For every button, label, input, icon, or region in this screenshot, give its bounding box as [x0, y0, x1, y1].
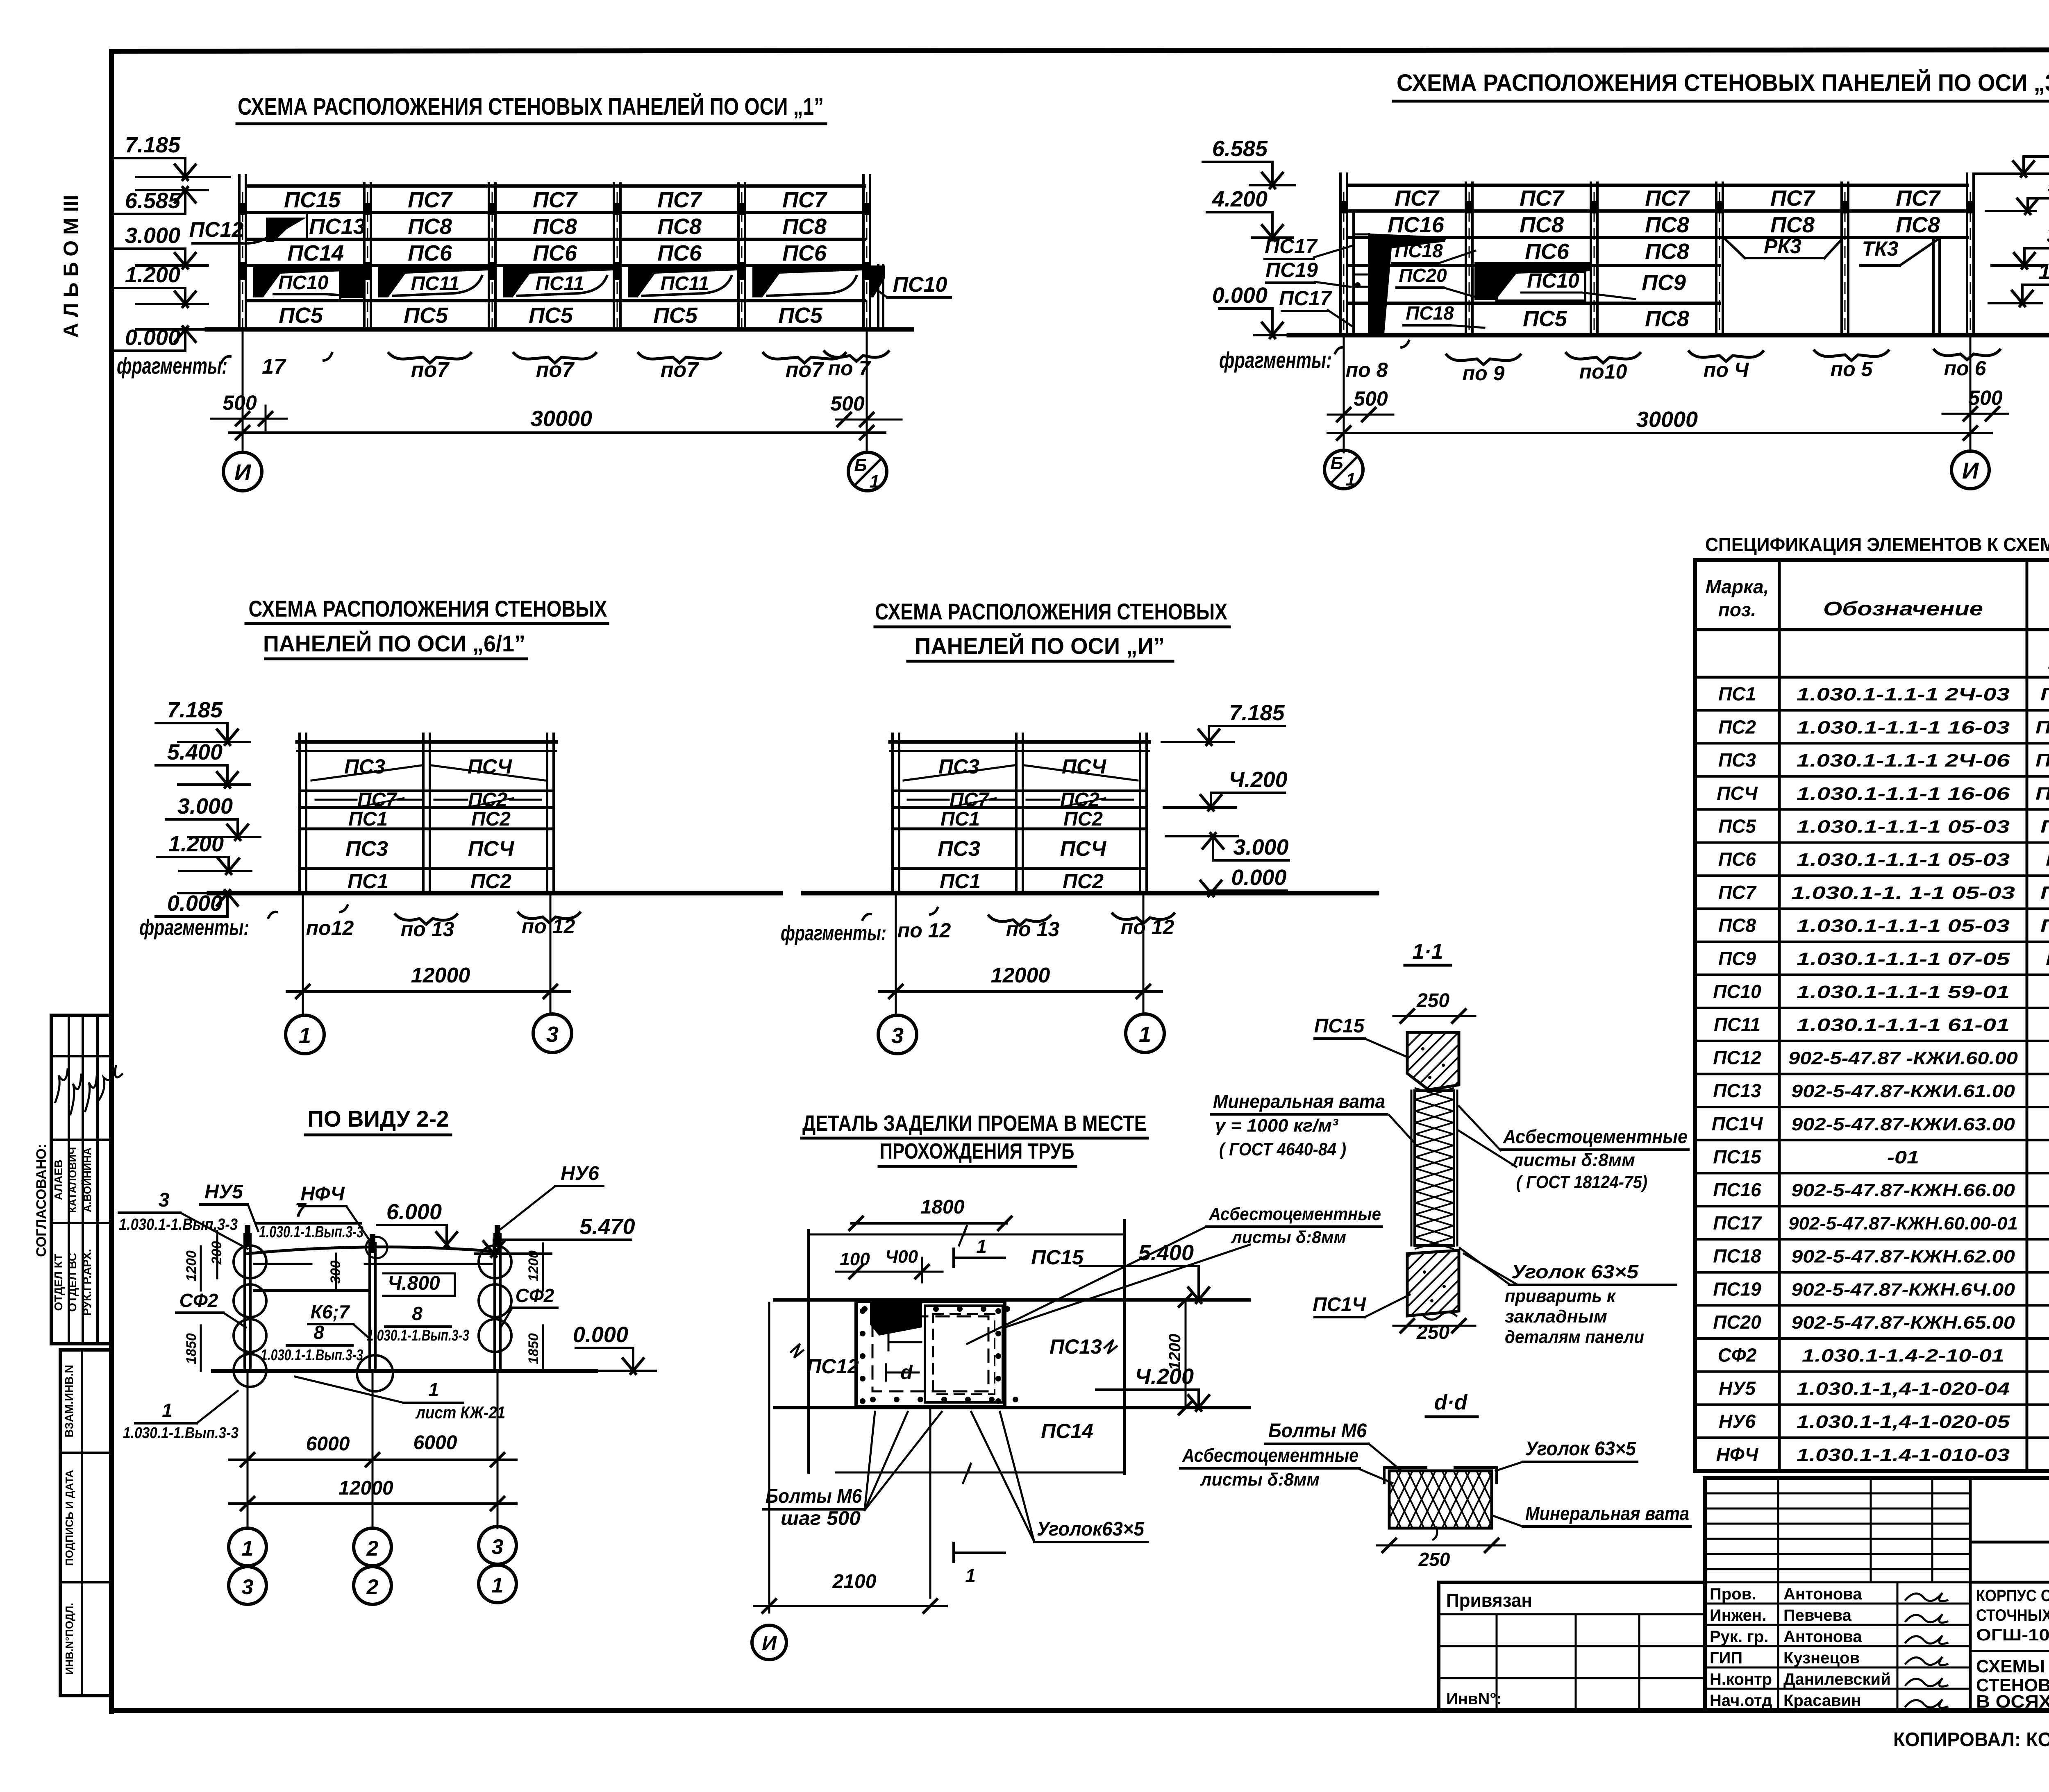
schemaИ columns [891, 734, 894, 893]
svg-text:Б: Б [1330, 453, 1343, 473]
big black wedge bay1 schema3 (two-storey panel) [1370, 234, 1447, 333]
svg-text:ПС15: ПС15 [1314, 1015, 1365, 1037]
svg-text:по 5: по 5 [1831, 358, 1873, 381]
svg-text:СФ2: СФ2 [516, 1285, 554, 1306]
svg-text:Ч.800: Ч.800 [388, 1273, 440, 1294]
break zigzag left of ПС12 [791, 1344, 803, 1358]
svg-text:3: 3 [242, 1575, 254, 1599]
svg-text:СХЕМА РАСПОЛОЖЕНИЯ СТЕНОВЫХ ПА: СХЕМА РАСПОЛОЖЕНИЯ СТЕНОВЫХ ПАНЕЛЕЙ ПО О… [238, 93, 824, 120]
svg-text:ПС 60. 12. 2,5-3.Л-31: ПС 60. 12. 2,5-3.Л-31 [2040, 916, 2049, 936]
white window right part of opening [925, 1306, 1003, 1402]
svg-text:приварить к: приварить к [1505, 1286, 1617, 1306]
svg-text:ПС12: ПС12 [189, 218, 244, 242]
elevation mark 7.185 [114, 157, 185, 159]
svg-text:Уголок 63×5: Уголок 63×5 [1525, 1438, 1636, 1460]
svg-text:ПС2: ПС2 [1063, 870, 1104, 893]
svg-text:3: 3 [546, 1022, 559, 1047]
svg-text:1.030.1-1.Вып.3-3: 1.030.1-1.Вып.3-3 [119, 1216, 238, 1234]
left margin approval table [51, 1015, 111, 1344]
svg-text:ПС8: ПС8 [533, 214, 577, 239]
svg-text:Асбестоцементные: Асбестоцементные [1503, 1126, 1688, 1147]
svg-text:ПС1: ПС1 [348, 808, 388, 830]
svg-text:0.000: 0.000 [167, 891, 223, 916]
elevation mark 6.585 [114, 213, 185, 215]
view2-2 posts [243, 1234, 246, 1371]
svg-text:Привязан: Привязан [1446, 1590, 1532, 1611]
svg-text:ПС6: ПС6 [408, 241, 452, 265]
svg-text:ПС6: ПС6 [1525, 239, 1570, 264]
schema3 row line B1 [1348, 209, 1967, 213]
svg-text:ПС17: ПС17 [1265, 235, 1318, 258]
svg-text:ПС12: ПС12 [806, 1355, 859, 1378]
svg-text:ПС7: ПС7 [1395, 186, 1440, 211]
elevation mark Ч.200 [1211, 792, 1285, 794]
svg-text:3.000: 3.000 [177, 794, 233, 819]
elevation mark Ч.200 [1096, 1388, 1199, 1391]
elevation mark 5.470 [494, 1239, 631, 1241]
svg-text:ПС5: ПС5 [404, 303, 448, 328]
svg-text:фрагменты:: фрагменты: [117, 353, 227, 379]
axis circle Б/1 schema3 [1324, 450, 1363, 489]
elevation mark 3.000 [114, 247, 185, 250]
elevation mark 3.000 [166, 818, 238, 821]
schemaИ row lines [893, 789, 1147, 792]
svg-text:12000: 12000 [991, 964, 1050, 987]
schema3 connector blobs [1339, 201, 1348, 213]
dimension 12000 view2-2 [229, 1502, 516, 1505]
svg-text:ПС7: ПС7 [1896, 186, 1941, 211]
svg-text:7.185: 7.185 [167, 698, 223, 722]
svg-text:6.585: 6.585 [125, 188, 181, 213]
svg-text:ПС20: ПС20 [1713, 1311, 1761, 1333]
svg-text:1: 1 [1346, 470, 1356, 490]
svg-text:6.000: 6.000 [386, 1200, 442, 1224]
svg-text:ПС18: ПС18 [1395, 240, 1443, 261]
svg-text:КАТАЛОВИЧ: КАТАЛОВИЧ [66, 1147, 79, 1213]
svg-text:12000: 12000 [338, 1477, 393, 1499]
svg-text:ДЕТАЛЬ ЗАДЕЛКИ ПРОЕМА В МЕСТЕ: ДЕТАЛЬ ЗАДЕЛКИ ПРОЕМА В МЕСТЕ [802, 1111, 1147, 1136]
svg-text:ПС20: ПС20 [1399, 265, 1447, 286]
svg-text:500: 500 [830, 392, 865, 415]
svg-text:1.030.1-1.4-1-010-03: 1.030.1-1.4-1-010-03 [1797, 1445, 2010, 1465]
svg-text:листы δ:8мм: листы δ:8мм [1200, 1470, 1320, 1490]
svg-text:НФЧ: НФЧ [300, 1183, 345, 1205]
svg-text:ПС6: ПС6 [1718, 848, 1756, 870]
svg-text:Пров.: Пров. [1710, 1585, 1756, 1603]
elevation mark 6.000 [377, 1224, 447, 1226]
svg-text:γ = 1000 кг/м³: γ = 1000 кг/м³ [1215, 1116, 1338, 1136]
svg-text:ПС 60. 12. 2,5-3.Л-3Ч: ПС 60. 12. 2,5-3.Л-3Ч [2040, 883, 2049, 903]
svg-text:НУ6: НУ6 [561, 1163, 599, 1184]
svg-text:КОПИРОВАЛ: КОРШУНОВА: КОПИРОВАЛ: КОРШУНОВА [1893, 1729, 2049, 1751]
axis circles column 3/1 [479, 1527, 516, 1564]
elevation mark 0.000 [576, 1347, 633, 1349]
svg-text:3.000: 3.000 [2047, 223, 2049, 247]
svg-text:по 12: по 12 [897, 919, 951, 942]
svg-text:Ч.200: Ч.200 [1229, 767, 1287, 792]
svg-text:лист КЖ-21: лист КЖ-21 [415, 1403, 505, 1422]
svg-text:Асбестоцементные: Асбестоцементные [1209, 1204, 1381, 1224]
svg-text:ПС11: ПС11 [535, 273, 584, 295]
svg-text:-01: -01 [1887, 1148, 1919, 1168]
svg-text:Болты М6: Болты М6 [766, 1486, 862, 1507]
svg-text:ИНВ.N°ПОДЛ.: ИНВ.N°ПОДЛ. [63, 1603, 75, 1674]
schema1 dark band with windows ПС10/ПС11 [253, 265, 364, 297]
svg-text:8: 8 [313, 1322, 324, 1343]
svg-text:5.400: 5.400 [2047, 173, 2049, 197]
svg-text:300: 300 [328, 1261, 343, 1284]
svg-text:ПС10: ПС10 [278, 272, 329, 294]
svg-text:1.200: 1.200 [168, 832, 224, 856]
svg-text:закладным: закладным [1505, 1307, 1607, 1327]
svg-text:ПС7: ПС7 [1645, 186, 1690, 211]
vertical dim 200/1200 left [216, 1231, 218, 1278]
svg-text:1: 1 [492, 1574, 504, 1597]
svg-text:1.030.1-1.1-1 05-03: 1.030.1-1.1-1 05-03 [1797, 850, 2010, 870]
svg-text:Антонова: Антонова [1783, 1585, 1862, 1603]
svg-text:ПС8: ПС8 [782, 214, 827, 239]
svg-text:Уголок63×5: Уголок63×5 [1037, 1518, 1145, 1540]
svg-text:ПС5: ПС5 [1523, 306, 1567, 331]
svg-text:ПС 60. 12. 2,5-3Л-37: ПС 60. 12. 2,5-3Л-37 [2046, 850, 2049, 870]
svg-text:1: 1 [299, 1023, 311, 1048]
svg-text:Н.контр: Н.контр [1710, 1670, 1772, 1688]
svg-text:ПС3: ПС3 [938, 755, 979, 778]
svg-text:1.030.1-1.4-2-10-01: 1.030.1-1.4-2-10-01 [1802, 1346, 2004, 1366]
svg-text:ПС8: ПС8 [1520, 213, 1564, 237]
view2-2 axis verticals [247, 1371, 249, 1528]
svg-text:ПС1Ч: ПС1Ч [1712, 1113, 1763, 1134]
detail opening inner dashed frame [872, 1316, 988, 1391]
vertical dims 1850 left/right [200, 1325, 202, 1371]
svg-text:ПС7: ПС7 [1770, 186, 1816, 211]
svg-text:ПС5: ПС5 [279, 303, 323, 328]
svg-text:СХЕМА РАСПОЛОЖЕНИЯ СТЕНОВЫХ: СХЕМА РАСПОЛОЖЕНИЯ СТЕНОВЫХ [875, 599, 1227, 624]
svg-text:1: 1 [242, 1537, 254, 1561]
svg-text:250: 250 [1416, 990, 1449, 1012]
svg-text:1.030.1-1.1-1 59-01: 1.030.1-1.1-1 59-01 [1797, 982, 2010, 1002]
bolt dots around opening [862, 1306, 868, 1312]
svg-text:по 12: по 12 [1121, 916, 1174, 939]
dashed mid labels ПС7 ПС2 (struck) [316, 799, 357, 801]
svg-text:ПС10: ПС10 [1527, 269, 1579, 292]
svg-text:ПС14: ПС14 [1041, 1420, 1093, 1443]
svg-text:ПС5: ПС5 [1718, 816, 1756, 837]
window underline curve bay5 schema1 [767, 276, 856, 296]
svg-text:ПС14: ПС14 [287, 241, 344, 265]
svg-text:ПС16: ПС16 [1388, 213, 1445, 237]
axis circle Б/1 schema1 [848, 452, 887, 491]
svg-text:ПС11: ПС11 [1714, 1014, 1761, 1035]
fragment marks 17 and по7 [221, 356, 230, 363]
svg-text:Ч00: Ч00 [885, 1247, 918, 1267]
svg-text:СХЕМЫ РАСПОЛОЖЕНИЯ: СХЕМЫ РАСПОЛОЖЕНИЯ [1976, 1656, 2049, 1676]
svg-text:по Ч: по Ч [1704, 358, 1749, 381]
elevation mark 0.000 [156, 915, 227, 918]
svg-text:И: И [234, 459, 252, 485]
svg-text:Данилевский: Данилевский [1783, 1670, 1891, 1688]
svg-text:Уголок 63×5: Уголок 63×5 [1511, 1261, 1639, 1282]
schema3 row lines B3/B4 only bays1-3 [1348, 264, 1720, 267]
black wedge panel ПС12 in bay1 row2 [266, 218, 307, 242]
svg-text:фрагменты:: фрагменты: [781, 921, 886, 945]
svg-text:ОТДЕЛ КТ: ОТДЕЛ КТ [52, 1254, 65, 1311]
svg-text:1: 1 [162, 1400, 173, 1421]
svg-text:РУК.ГР.АРХ.: РУК.ГР.АРХ. [81, 1249, 93, 1316]
svg-text:1.030.1-1.1-1 2Ч-06: 1.030.1-1.1-1 2Ч-06 [1797, 751, 2010, 771]
svg-text:3: 3 [492, 1535, 504, 1559]
svg-text:1.200: 1.200 [2038, 259, 2049, 284]
svg-text:ПС8: ПС8 [1645, 213, 1689, 237]
left margin lower stamp boxes [60, 1350, 111, 1696]
svg-text:ПС6: ПС6 [657, 241, 702, 265]
svg-text:6000: 6000 [413, 1432, 457, 1454]
svg-text:1.030.1-1,4-1-020-04: 1.030.1-1,4-1-020-04 [1797, 1379, 2010, 1399]
svg-text:ПС15: ПС15 [1713, 1146, 1762, 1168]
svg-text:ПС8: ПС8 [1645, 306, 1689, 331]
svg-text:1: 1 [428, 1379, 439, 1400]
svg-text:СОГЛАСОВАНО:: СОГЛАСОВАНО: [34, 1144, 49, 1257]
elevation mark 7.185 [156, 722, 227, 724]
svg-text:2100: 2100 [832, 1571, 877, 1592]
svg-text:3: 3 [159, 1189, 170, 1211]
svg-text:ПС18: ПС18 [1713, 1245, 1761, 1267]
detail horizontal line 5.400 level [775, 1298, 1249, 1302]
d-d crosshatched block [1389, 1471, 1492, 1528]
schema6/1 ground line [209, 891, 781, 896]
svg-text:d·d: d·d [1434, 1391, 1468, 1414]
dimension 30000 schema3 [1328, 432, 1992, 434]
svg-text:1.030.1-1.1-1 07-05: 1.030.1-1.1-1 07-05 [1797, 949, 2010, 969]
svg-text:Асбестоцементные: Асбестоцементные [1182, 1445, 1358, 1466]
svg-text:902-5-47.87-КЖН.6Ч.00: 902-5-47.87-КЖН.6Ч.00 [1791, 1279, 2015, 1300]
elevation mark 1.200 [157, 856, 229, 858]
svg-text:АЛАЕВ: АЛАЕВ [52, 1159, 65, 1200]
dimension 12000 schema6/1 [287, 990, 570, 993]
svg-text:1: 1 [1139, 1022, 1151, 1047]
svg-text:ПС1: ПС1 [1718, 683, 1756, 705]
svg-text:902-5-47.87-КЖН.62.00: 902-5-47.87-КЖН.62.00 [1791, 1247, 2015, 1267]
section 1 mark bottom [952, 1543, 955, 1562]
svg-text:5.400: 5.400 [167, 740, 223, 764]
svg-text:ПС3: ПС3 [1718, 749, 1756, 771]
svg-text:ПС8: ПС8 [408, 214, 452, 239]
svg-text:3.000: 3.000 [125, 223, 180, 248]
svg-text:12000: 12000 [411, 964, 470, 987]
title block outer frame [1705, 1478, 2049, 1710]
roof slope dashed lines [904, 765, 1014, 780]
svg-text:902-5-47.87-КЖН.66.00: 902-5-47.87-КЖН.66.00 [1791, 1180, 2015, 1200]
axis circle 1 schemaИ [1126, 1014, 1164, 1053]
svg-text:100: 100 [840, 1249, 870, 1269]
svg-text:шаг 500: шаг 500 [781, 1508, 861, 1529]
svg-text:ПС5: ПС5 [653, 303, 698, 328]
svg-text:Антонова: Антонова [1783, 1628, 1862, 1646]
fragment по 9 [1447, 355, 1520, 365]
svg-text:1.030.1-1.Вып.3-3: 1.030.1-1.Вып.3-3 [123, 1425, 239, 1442]
axis circles column 2/2 [354, 1528, 391, 1566]
svg-text:1.030.1-1. 1-1 05-03: 1.030.1-1. 1-1 05-03 [1791, 883, 2015, 903]
svg-text:ПС8: ПС8 [1896, 213, 1940, 237]
svg-text:7.185: 7.185 [125, 133, 181, 157]
elevation mark 5.400 [156, 764, 227, 767]
svg-text:1.200: 1.200 [125, 263, 180, 287]
divider line under корпус [1970, 1650, 2049, 1652]
joint circles on right post [479, 1245, 511, 1278]
svg-text:фрагменты:: фрагменты: [1219, 347, 1332, 373]
sheet frame border [111, 50, 2049, 51]
svg-text:1.030.1-1.1-1 61-01: 1.030.1-1.1-1 61-01 [1797, 1015, 2010, 1035]
svg-text:деталям панели: деталям панели [1505, 1327, 1644, 1347]
svg-text:ПС7: ПС7 [657, 188, 703, 212]
detail outer vertical boundary lines [807, 1230, 810, 1472]
svg-text:по 8: по 8 [1346, 358, 1388, 381]
svg-text:А.ВОЙНИНА: А.ВОЙНИНА [81, 1148, 93, 1212]
band wedge + window ПС10 bay2 schema3 [1474, 262, 1590, 300]
svg-text:ПС19: ПС19 [1265, 259, 1318, 281]
svg-text:Красавин: Красавин [1783, 1692, 1861, 1710]
svg-text:по 9: по 9 [1463, 362, 1505, 385]
svg-text:СФ2: СФ2 [179, 1290, 218, 1311]
schema1 ground line 0.000 [207, 327, 912, 332]
svg-text:ПС2: ПС2 [470, 870, 511, 893]
mineral wool crosshatch middle [1415, 1091, 1454, 1245]
svg-text:ИнвN°:: ИнвN°: [1446, 1690, 1502, 1708]
svg-text:3: 3 [891, 1023, 904, 1048]
svg-text:НУ5: НУ5 [204, 1181, 243, 1203]
schema6/1 building outline [297, 740, 556, 744]
svg-text:1.030.1-1,4-1-020-05: 1.030.1-1,4-1-020-05 [1797, 1412, 2010, 1432]
left box Привязан [1439, 1581, 1705, 1584]
svg-text:по12: по12 [306, 916, 354, 939]
svg-text:РК3: РК3 [1764, 235, 1801, 258]
svg-text:ПС13: ПС13 [1049, 1335, 1102, 1358]
svg-text:1.030.1-1.1-1 16-03: 1.030.1-1.1-1 16-03 [1797, 717, 2010, 737]
svg-text:1200: 1200 [526, 1250, 541, 1282]
specification table grid [1695, 560, 2049, 1471]
svg-text:ПС2: ПС2 [471, 808, 511, 830]
svg-text:ПС16: ПС16 [1713, 1179, 1761, 1200]
axis circle И schema1 [223, 452, 262, 491]
svg-text:8: 8 [412, 1303, 423, 1324]
svg-text:ПС1: ПС1 [348, 870, 388, 893]
svg-text:ПС15: ПС15 [1031, 1246, 1084, 1269]
svg-text:1200: 1200 [184, 1250, 199, 1282]
schema1 right extra post [877, 265, 879, 329]
svg-text:1800: 1800 [921, 1196, 965, 1218]
elevation mark 7.185 [1209, 725, 1285, 727]
panel ПС14 hatched bottom [1407, 1250, 1459, 1316]
svg-text:6000: 6000 [306, 1433, 350, 1455]
joint circle middle post bottom [357, 1355, 393, 1391]
svg-text:ПС1: ПС1 [940, 870, 981, 893]
svg-text:ПС 63. 18. 2,5-2.Л- 2.31: ПС 63. 18. 2,5-2.Л- 2.31 [2035, 751, 2049, 771]
svg-text:Минеральная вата: Минеральная вата [1213, 1091, 1385, 1112]
dimension 12000 schemaИ [879, 990, 1162, 993]
schema6/1 columns [298, 734, 301, 893]
svg-text:1.030.1-1.1-1 2Ч-03: 1.030.1-1.1-1 2Ч-03 [1797, 685, 2010, 705]
view2-2 mid connection lines [254, 1263, 311, 1265]
svg-text:по 12: по 12 [522, 915, 575, 938]
svg-text:ПО ВИДУ 2-2: ПО ВИДУ 2-2 [308, 1106, 449, 1132]
svg-text:ПС5: ПС5 [529, 303, 573, 328]
svg-text:по 13: по 13 [401, 918, 454, 941]
svg-text:250: 250 [1418, 1549, 1450, 1570]
svg-text:ОТДЕЛ ВС: ОТДЕЛ ВС [66, 1253, 79, 1312]
svg-text:ПОДПИСЬ И ДАТА: ПОДПИСЬ И ДАТА [63, 1470, 75, 1566]
svg-text:Ч.200: Ч.200 [1135, 1364, 1194, 1389]
fragment по 6 [1934, 350, 2000, 360]
table data rows [1695, 709, 2049, 712]
post top black caps [245, 1225, 250, 1245]
schema3 right extra post [1932, 238, 1935, 335]
svg-text:ПС6: ПС6 [533, 241, 577, 265]
central axis vertical of opening [929, 1409, 931, 1598]
schema3 end panel strip left (ПС17/ПС19) [1352, 211, 1355, 335]
elevation mark 3.000 [2024, 247, 2049, 250]
svg-text:по 13: по 13 [1006, 918, 1060, 941]
asbestos sheets side lines [1411, 1091, 1413, 1245]
fragment по 4 [1689, 352, 1763, 361]
svg-text:по7: по7 [661, 358, 700, 382]
svg-text:ГИП: ГИП [1710, 1649, 1742, 1667]
signatures column squiggles [1906, 1593, 1947, 1601]
joint circles on left post [234, 1245, 266, 1278]
svg-text:ПС17: ПС17 [1713, 1212, 1762, 1234]
svg-text:по7: по7 [786, 358, 825, 382]
svg-text:5.400: 5.400 [1138, 1241, 1194, 1265]
svg-text:30000: 30000 [531, 406, 592, 431]
svg-text:поз.: поз. [1718, 599, 1756, 620]
dimension 6000 6000 [229, 1459, 516, 1461]
svg-text:ПС 63. 12. 2,5-3. Л-1.31: ПС 63. 12. 2,5-3. Л-1.31 [2035, 717, 2049, 737]
svg-text:ПС 63.12.2,5-3.Л-2.31: ПС 63.12.2,5-3.Л-2.31 [2040, 685, 2049, 705]
detail opening outer rect [856, 1301, 1005, 1406]
svg-text:ПС8: ПС8 [1645, 239, 1689, 264]
svg-text:0.000: 0.000 [1231, 865, 1286, 890]
svg-text:Болты М6: Болты М6 [1268, 1420, 1367, 1442]
svg-text:7: 7 [295, 1200, 307, 1221]
schema1 horizontal panel joint lines [248, 184, 865, 188]
schema1 axis verticals down to circles [242, 329, 244, 451]
svg-text:902-5-47.87-КЖН.60.00-01: 902-5-47.87-КЖН.60.00-01 [1788, 1214, 2018, 1234]
svg-text:ПС1Ч: ПС1Ч [1313, 1294, 1366, 1316]
elevation mark 1.200 [2022, 284, 2049, 286]
svg-text:СФ2: СФ2 [1718, 1345, 1757, 1366]
svg-text:ПС7: ПС7 [1718, 882, 1757, 903]
svg-text:И: И [762, 1632, 777, 1655]
elevation mark 4.200 [1207, 211, 1272, 213]
svg-text:ПСЧ: ПСЧ [468, 755, 513, 778]
svg-text:Рук. гр.: Рук. гр. [1710, 1628, 1768, 1646]
schema1 columns [238, 175, 241, 329]
roof slope dashed lines ПС3/ПС4 [311, 765, 422, 780]
svg-text:0.000: 0.000 [573, 1322, 628, 1347]
РК3 trapezoid bay4 [1724, 238, 1745, 258]
svg-text:ПС11: ПС11 [660, 273, 709, 295]
section 1 mark top [952, 1249, 955, 1267]
schema1 column connector blobs [238, 203, 247, 215]
view2-2 level line 4.800 partial [254, 1289, 369, 1292]
svg-text:ОГШ-1001К-01: ОГШ-1001К-01 [1976, 1626, 2049, 1644]
svg-text:ПС2: ПС2 [1063, 808, 1103, 830]
elevation mark 5.400 [1080, 1265, 1199, 1267]
svg-text:НУ5: НУ5 [1719, 1377, 1756, 1399]
axis circles column 1/3 [229, 1528, 266, 1566]
svg-text:1.030.1-1.1-1 16-06: 1.030.1-1.1-1 16-06 [1797, 784, 2010, 804]
svg-text:фрагменты:: фрагменты: [139, 915, 249, 940]
svg-text:2: 2 [366, 1537, 379, 1561]
